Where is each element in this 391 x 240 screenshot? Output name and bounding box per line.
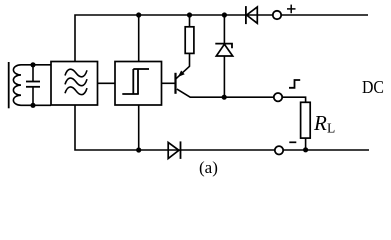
svg-text:L: L [327,121,335,136]
svg-text:DC: DC [362,77,384,97]
svg-text:R: R [313,111,327,135]
svg-text:(a): (a) [199,158,218,177]
